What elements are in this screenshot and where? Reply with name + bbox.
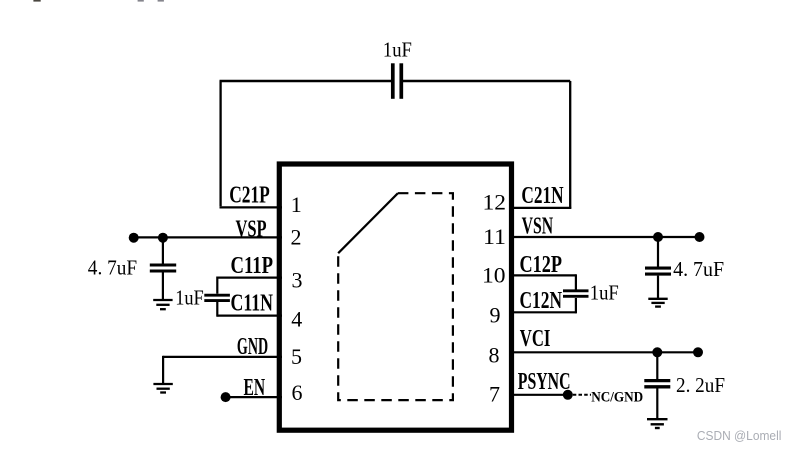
- svg-text:12: 12: [483, 189, 507, 214]
- wire C12N pin9 stub: [509, 311, 576, 313]
- svg-text:GND: GND: [237, 333, 268, 360]
- wire right riser: [569, 81, 571, 209]
- top edge artifact 3: [158, 0, 164, 2]
- svg-text:6: 6: [292, 380, 303, 405]
- svg-text:9: 9: [490, 303, 501, 328]
- wire C11N pin4 stub: [217, 315, 282, 317]
- top edge artifact 1: [33, 0, 40, 2]
- wire PSYNC dashed to NC/GND: [573, 394, 591, 396]
- node VSN junction dot: [653, 232, 663, 242]
- capacitor C12 1uF top plate: [563, 289, 589, 292]
- svg-text:C11P: C11P: [231, 252, 274, 279]
- wire top left segment: [220, 80, 392, 82]
- wire C11P down: [216, 277, 218, 294]
- svg-text:CSDN @Lomell: CSDN @Lomell: [697, 428, 782, 443]
- capacitor C12 1uF bottom plate: [563, 295, 589, 298]
- node VCI terminal dot: [693, 347, 703, 357]
- wire VSN pin11: [509, 236, 700, 238]
- wire junction to C 2.2uF: [656, 352, 658, 379]
- svg-text:VCI: VCI: [520, 325, 551, 352]
- svg-text:C12N: C12N: [520, 287, 563, 314]
- wire cap to ground right: [657, 276, 659, 299]
- wire GND down: [162, 356, 164, 384]
- op-amp U1 IC body: [279, 164, 511, 430]
- wire EN pin6: [226, 396, 282, 398]
- svg-text:EN: EN: [244, 374, 266, 401]
- wire C11N up: [216, 302, 218, 317]
- svg-text:VSN: VSN: [522, 212, 554, 239]
- node VCI junction dot: [652, 347, 662, 357]
- wire junction to C right 4.7uF: [657, 237, 659, 267]
- svg-text:4: 4: [291, 307, 302, 332]
- ground left 4.7uF: [153, 300, 172, 309]
- wire C12P pin10 stub: [509, 274, 576, 276]
- node EN terminal dot: [221, 392, 231, 402]
- svg-text:1uF: 1uF: [590, 280, 619, 304]
- node VSP terminal dot: [129, 233, 139, 243]
- svg-text:PSYNC: PSYNC: [518, 368, 571, 395]
- capacitor C 2.2uF top plate: [644, 379, 670, 382]
- svg-text:C11N: C11N: [231, 290, 274, 317]
- capacitor C 4.7uF right top plate: [645, 267, 671, 270]
- wire left riser: [219, 81, 221, 206]
- wire cap to ground 2.2uF: [656, 388, 658, 419]
- svg-text:1: 1: [291, 192, 302, 217]
- ground 2.2uF: [647, 419, 668, 428]
- svg-text:NC/GND: NC/GND: [591, 390, 643, 406]
- svg-text:VSP: VSP: [236, 215, 267, 242]
- svg-text:10: 10: [482, 263, 506, 288]
- svg-text:5: 5: [291, 344, 302, 369]
- node PSYNC dot: [563, 390, 573, 400]
- wire VCI pin8: [509, 351, 698, 353]
- svg-text:2: 2: [291, 224, 302, 249]
- wire VSP pin2: [134, 236, 282, 238]
- IC inner diagonal (pin1 mark): [338, 193, 398, 253]
- svg-text:C21N: C21N: [521, 182, 563, 209]
- svg-text:8: 8: [489, 343, 500, 368]
- capacitor C 4.7uF right bottom plate: [645, 273, 671, 276]
- wire GND pin5 stub: [163, 356, 282, 358]
- node VSP junction dot: [158, 233, 168, 243]
- wire cap to ground left: [162, 273, 164, 301]
- svg-text:C12P: C12P: [520, 251, 563, 278]
- svg-text:1uF: 1uF: [175, 286, 204, 310]
- capacitor C 2.2uF bottom plate: [644, 385, 670, 388]
- svg-text:2. 2uF: 2. 2uF: [676, 373, 725, 397]
- ground right 4.7uF: [648, 299, 667, 307]
- svg-text:C21P: C21P: [229, 182, 270, 209]
- wire C12N up: [575, 298, 577, 313]
- IC inner dashed outline: [338, 193, 453, 400]
- svg-text:1uF: 1uF: [383, 38, 412, 62]
- capacitor C_top 1uF left plate: [391, 63, 395, 99]
- wire top right segment: [403, 80, 570, 82]
- capacitor C_top 1uF right plate: [399, 63, 403, 99]
- ground GND pin5: [153, 384, 172, 393]
- wire C12P down: [575, 274, 577, 290]
- svg-text:3: 3: [292, 267, 303, 292]
- wire junction to C左 4.7uF: [162, 237, 164, 263]
- svg-text:7: 7: [489, 381, 500, 406]
- wire PSYNC pin7: [509, 394, 568, 396]
- capacitor C 4.7uF left bottom plate: [150, 269, 176, 272]
- wire pin1 to left riser: [220, 206, 283, 208]
- capacitor C 4.7uF left top plate: [150, 263, 176, 266]
- capacitor C11 1uF bottom plate: [204, 299, 230, 302]
- wire pin12 to right riser: [509, 207, 571, 209]
- svg-text:11: 11: [483, 224, 506, 249]
- node VSN terminal dot: [695, 232, 705, 242]
- capacitor C11 1uF top plate: [204, 294, 230, 297]
- wire C11P pin3 stub: [217, 277, 282, 279]
- svg-text:4. 7uF: 4. 7uF: [673, 257, 724, 281]
- top edge artifact 2: [138, 0, 144, 2]
- svg-text:4. 7uF: 4. 7uF: [88, 256, 137, 280]
